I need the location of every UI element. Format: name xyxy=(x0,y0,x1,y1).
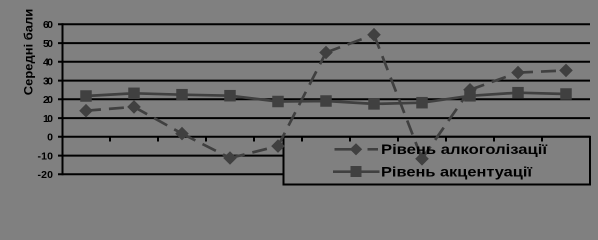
gridline y=50 xyxy=(58,42,590,44)
svg-text:30: 30 xyxy=(43,75,53,87)
series 2 square markers xyxy=(80,87,572,110)
svg-text:40: 40 xyxy=(43,57,53,69)
legend entry 1 diamond xyxy=(350,143,362,155)
gridline y=60 xyxy=(58,23,590,25)
series 2 line (solid) xyxy=(86,93,566,104)
gridline y=40 xyxy=(58,61,590,63)
y-axis tick labels xyxy=(38,19,54,181)
gridline y=10 xyxy=(58,117,590,119)
series 1 diamond markers xyxy=(79,28,573,166)
gridline y=0 x-axis xyxy=(58,136,590,138)
y-axis xyxy=(62,23,64,175)
svg-text:-20: -20 xyxy=(38,169,54,181)
x-axis ticks xyxy=(110,137,542,142)
svg-text:Середні бали: Середні бали xyxy=(22,9,36,96)
gridline y=30 xyxy=(58,80,590,82)
svg-text:Рівень алкоголізації: Рівень алкоголізації xyxy=(381,141,548,157)
svg-text:50: 50 xyxy=(43,38,53,50)
legend entry 1 line sample xyxy=(335,148,352,151)
svg-text:-10: -10 xyxy=(38,150,54,162)
svg-text:20: 20 xyxy=(43,94,53,106)
svg-text:10: 10 xyxy=(43,113,53,125)
legend entry 2 line sample xyxy=(333,170,380,173)
gridline y=-10 xyxy=(58,155,590,157)
gridline y=20 xyxy=(58,98,590,100)
svg-text:60: 60 xyxy=(43,19,53,31)
gridline y=-20 xyxy=(58,173,590,175)
series 1 line (dashed) xyxy=(86,35,566,159)
legend entry 2 square xyxy=(351,166,362,177)
svg-text:Рівень акцентуації: Рівень акцентуації xyxy=(381,163,533,179)
legend box xyxy=(284,137,591,185)
chart background xyxy=(0,0,598,191)
svg-text:0: 0 xyxy=(47,132,53,144)
